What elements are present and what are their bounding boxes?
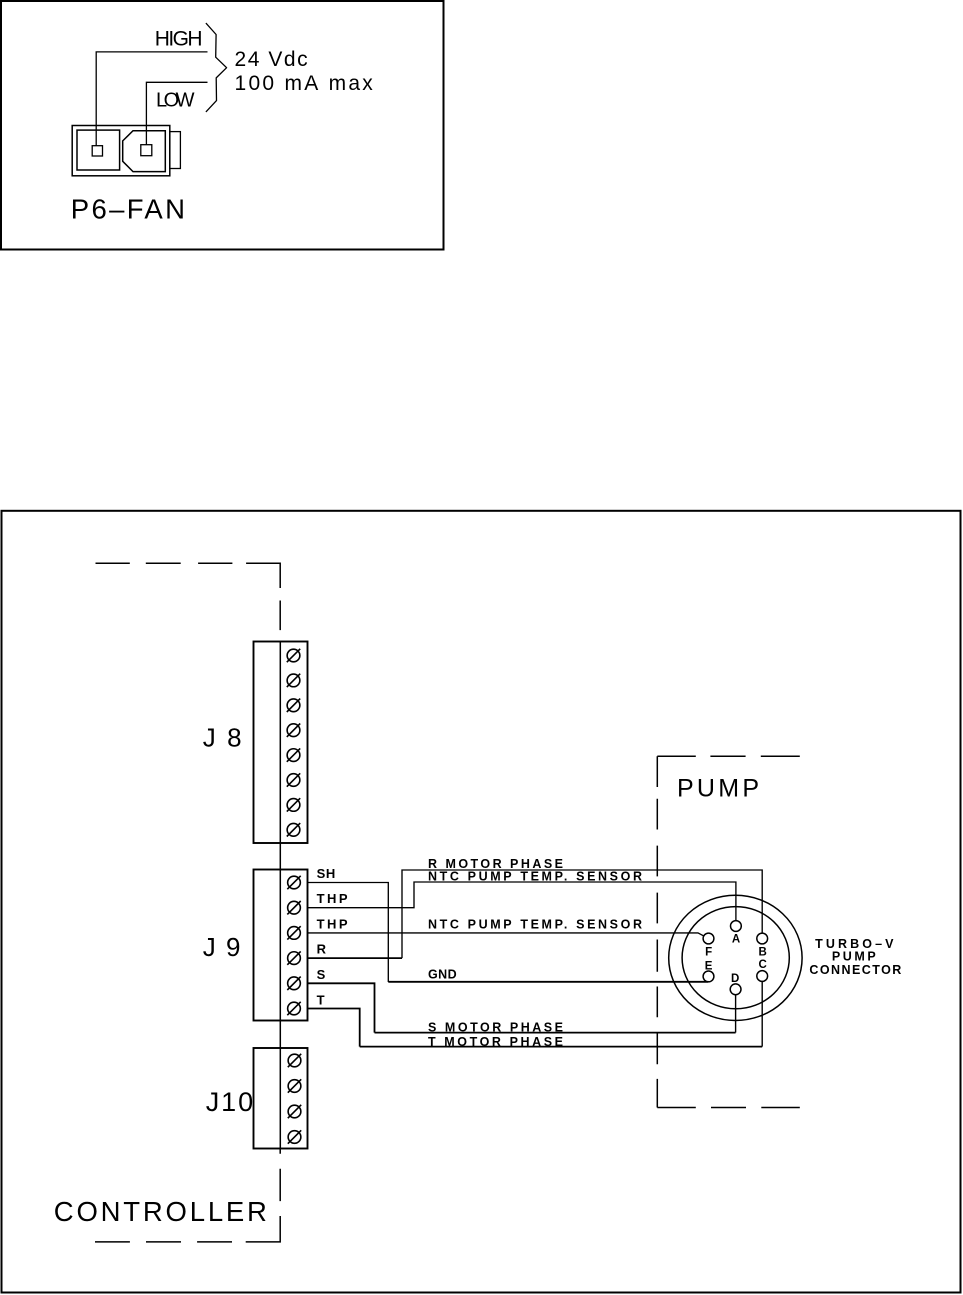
svg-text:CONNECTOR: CONNECTOR — [809, 963, 901, 977]
svg-text:P6–FAN: P6–FAN — [71, 193, 185, 224]
svg-text:PUMP: PUMP — [677, 775, 759, 803]
pin B — [757, 933, 768, 944]
wire GND run to pin E — [388, 981, 708, 983]
pump dashed boundary top — [657, 755, 800, 757]
pump dashed boundary left — [656, 756, 658, 1107]
J10 divider — [279, 1048, 281, 1149]
svg-text:24 Vdc: 24 Vdc — [235, 48, 308, 71]
wire S motor phase run — [375, 1032, 736, 1034]
brace 24Vdc — [206, 23, 227, 112]
svg-text:J10: J10 — [206, 1087, 253, 1117]
svg-text:R: R — [317, 942, 327, 957]
controller border box — [2, 511, 961, 1293]
svg-text:T: T — [317, 993, 325, 1008]
J9 screw terminals — [287, 876, 300, 1015]
turbo-v connector outer circle — [669, 895, 802, 1020]
controller dashed boundary top — [96, 563, 281, 630]
wire T motor phase riser to pin C — [761, 982, 763, 1047]
J8 divider — [279, 642, 281, 844]
wire T stub — [308, 1009, 360, 1047]
svg-text:GND: GND — [428, 968, 457, 982]
svg-text:THP: THP — [317, 916, 348, 931]
pin D — [730, 984, 741, 995]
wire R motor phase to pin B — [402, 870, 762, 958]
svg-text:THP: THP — [317, 891, 348, 906]
svg-text:E: E — [705, 961, 713, 973]
connector P6-FAN cavity 1 — [77, 130, 120, 170]
connector P6-FAN body — [72, 126, 170, 176]
svg-text:C: C — [758, 959, 766, 971]
connector P6-FAN pin 2 — [141, 145, 152, 156]
svg-text:S: S — [317, 967, 326, 982]
terminal block J9 — [254, 870, 308, 1021]
wire R stub — [308, 957, 403, 959]
svg-text:A: A — [732, 933, 740, 945]
svg-text:HIGH: HIGH — [155, 27, 203, 50]
wire T motor phase run — [360, 1046, 763, 1048]
svg-text:CONTROLLER: CONTROLLER — [54, 1196, 267, 1227]
svg-text:PUMP: PUMP — [832, 949, 876, 963]
pin E — [703, 971, 714, 982]
terminal block J10 — [254, 1048, 308, 1149]
pump dashed boundary bottom — [657, 1107, 800, 1109]
wire HIGH fan lead — [96, 52, 207, 146]
svg-text:T MOTOR PHASE: T MOTOR PHASE — [428, 1035, 563, 1049]
wire LOW fan lead — [146, 82, 207, 144]
svg-text:SH: SH — [317, 866, 336, 881]
wire S stub — [308, 983, 375, 1032]
svg-text:B: B — [758, 947, 766, 959]
turbo-v connector inner circle — [682, 907, 789, 1009]
wire THP2 to pin F (NTC sensor) — [308, 933, 705, 936]
wire THP1 to pin A (NTC sensor) — [308, 882, 736, 920]
wire S motor phase riser to pin D — [735, 995, 737, 1033]
J9 divider — [279, 870, 281, 1021]
controller dashed boundary bottom — [95, 1149, 280, 1242]
connector P6-FAN pin 1 — [92, 146, 102, 156]
svg-text:D: D — [731, 973, 739, 985]
terminal block J8 — [254, 642, 308, 844]
pin F — [703, 933, 714, 944]
pin A — [731, 921, 742, 932]
pin C — [757, 971, 768, 982]
connector P6-FAN cavity 2 keyed — [123, 131, 166, 172]
svg-text:F: F — [705, 947, 712, 959]
J10 screw terminals — [288, 1054, 301, 1144]
svg-text:LOW: LOW — [156, 89, 195, 111]
connector P6-FAN tab — [170, 132, 181, 169]
divider link J9-J10 — [279, 1021, 281, 1049]
J8 screw terminals — [287, 649, 300, 837]
svg-text:100 mA max: 100 mA max — [235, 72, 374, 95]
wire SH to GND (shield) — [308, 883, 389, 983]
divider link J8-J9 — [279, 843, 281, 870]
fan detail border box — [1, 1, 444, 250]
